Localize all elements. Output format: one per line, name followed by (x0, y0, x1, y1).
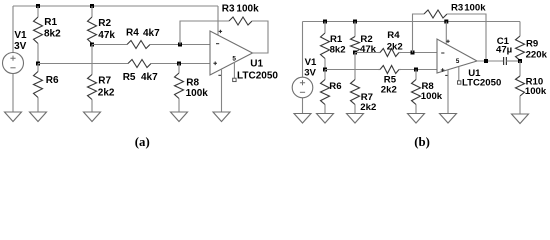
node junction R1 top on rail (b) (323, 20, 327, 24)
wire V+ top rail (b) (303, 21, 521, 23)
resistor R6 (a) (34, 64, 43, 113)
svg-text:(b): (b) (414, 135, 430, 149)
wire V+ supply pin drop to op-amp U1 (b) (445, 22, 447, 45)
resistor R2 47k (a) (88, 6, 97, 45)
svg-text:4k7: 4k7 (141, 72, 158, 83)
node junction R2 top on rail (a) (90, 4, 94, 8)
svg-text:V1: V1 (305, 57, 317, 68)
wire R2 bottom node to R4 (b) (355, 52, 378, 54)
node junction R8 top non-inverting input (a) (177, 62, 181, 66)
ground below R6 (a) (30, 112, 47, 122)
node junction R1 bottom / R6 top (a) (36, 62, 40, 66)
ground below V1 (b) (294, 114, 311, 124)
svg-text:U1: U1 (250, 58, 263, 69)
resistor R4 4k7 (a) (127, 41, 150, 49)
svg-text:LTC2050: LTC2050 (462, 78, 501, 89)
wire V+ supply pin drop to op-amp U1 (a) (217, 6, 219, 36)
svg-text:220k: 220k (526, 50, 548, 61)
ground below R7 (a) (84, 112, 101, 122)
op-amp U1 LTC2050 triangle (b) (437, 39, 477, 73)
node junction R2 top on rail (b) (353, 20, 357, 24)
resistor R4 2k2 (b) (378, 49, 401, 57)
wire feedback tap up to R3 (a) (180, 21, 229, 45)
resistor R3 100k feedback (b) (424, 10, 447, 18)
ground below R6 (b) (317, 114, 334, 124)
wire V1 positive terminal to top rail (b) (302, 22, 304, 78)
wire op-amp output to C1 (b) (477, 60, 504, 62)
op-amp U1 LTC2050 triangle (a) (210, 31, 253, 75)
wire R4 to inverting input of U1 (b) (401, 52, 437, 54)
wire V1 positive terminal to top rail (a) (12, 6, 14, 53)
svg-text:100k: 100k (186, 88, 209, 99)
pin 5 stub of U1 (b) (458, 67, 460, 81)
svg-text:R6: R6 (329, 81, 341, 92)
svg-text:5: 5 (232, 55, 236, 62)
svg-text:100k: 100k (525, 86, 547, 97)
wire op-amp V- pin to ground (b) (447, 70, 449, 114)
resistor R2 47k (b) (351, 22, 360, 53)
node junction C1 / R9 / R10 (b) (518, 59, 522, 63)
voltage source V1 3V (a) (3, 53, 24, 74)
ground below R8 (a) (171, 112, 188, 122)
svg-text:R6: R6 (46, 75, 59, 86)
wire V1 negative terminal to ground (a) (12, 74, 14, 113)
node junction R2 bottom / R4 / R7 (b) (353, 51, 357, 55)
wire V+ top rail (a) from V1 to op-amp supply (13, 5, 218, 7)
svg-text:2k2: 2k2 (360, 102, 376, 113)
resistor R3 100k feedback (a) (229, 17, 252, 25)
resistor R8 100k (a) (175, 64, 184, 113)
svg-text:2k2: 2k2 (98, 87, 115, 98)
svg-text:8k2: 8k2 (44, 28, 61, 39)
svg-text:47k: 47k (360, 44, 377, 55)
op-amp V- supply marker (a) (218, 74, 221, 76)
resistor R6 (b) (321, 70, 330, 114)
op-amp non-inverting input marker (b) (441, 68, 445, 72)
wire feedback tap up to R3 (b) (413, 14, 425, 53)
wire R1 bottom node to R5 (a) (38, 63, 128, 65)
op-amp non-inverting input marker (a) (213, 62, 217, 66)
ground below R7 (b) (347, 114, 364, 124)
svg-text:LTC2050: LTC2050 (237, 71, 278, 82)
svg-text:R1: R1 (44, 17, 57, 28)
pin 5 open terminal square (b) (458, 81, 461, 84)
svg-text:100k: 100k (236, 4, 259, 15)
svg-text:100k: 100k (464, 3, 486, 14)
svg-text:2k2: 2k2 (381, 85, 397, 96)
ground below op-amp U1 (b) (440, 114, 457, 124)
resistor R5 4k7 (a) (128, 60, 151, 68)
resistor R9 220k (b) (516, 36, 525, 61)
op-amp inverting input marker (b) (441, 52, 444, 54)
resistor R10 100k (b) (516, 61, 525, 114)
voltage source V1 3V (b) (292, 77, 313, 98)
svg-text:R7: R7 (98, 75, 111, 86)
ground below V1 (a) (5, 112, 22, 122)
svg-text:47µ: 47µ (496, 45, 512, 56)
op-amp V+ supply marker (a) (219, 30, 222, 33)
op-amp V- supply marker (b) (445, 74, 448, 76)
svg-text:4k7: 4k7 (143, 28, 160, 39)
resistor R7 2k2 (b) (351, 53, 360, 114)
wire R3 right to output node (b) (447, 14, 486, 61)
wire R5 to non-inverting input of U1 (b) (401, 69, 437, 71)
wire R5 to non-inverting input of U1 (a) (151, 63, 210, 65)
wire R2 bottom node to R4 (a) (92, 44, 127, 46)
svg-text:R2: R2 (98, 18, 111, 29)
resistor R5 2k2 (b) (378, 66, 401, 74)
wire R4 to inverting input of U1 (a) (150, 44, 210, 46)
svg-text:3V: 3V (304, 67, 316, 78)
ground below R10 (b) (512, 114, 529, 124)
node junction R2 bottom / R4 / R7 (a) (90, 43, 94, 47)
svg-text:5: 5 (456, 58, 460, 65)
node junction R8 top non-inverting input (b) (414, 68, 418, 72)
svg-text:R4: R4 (126, 28, 139, 39)
svg-text:R4: R4 (387, 30, 400, 41)
node junction V+ supply tap on rail (b) (444, 20, 448, 24)
svg-text:R5: R5 (123, 72, 136, 83)
node junction R1 bottom / R6 top (b) (323, 68, 327, 72)
node junction feedback tap inverting input (b) (411, 51, 415, 55)
wire top rail corner down to R9 (b) (519, 22, 521, 37)
svg-text:R8: R8 (186, 77, 199, 88)
resistor R1 8k2 (a) (34, 6, 43, 64)
wire R3 right to op-amp output (a) (252, 21, 268, 53)
svg-text:2k2: 2k2 (387, 41, 403, 52)
node junction output feedback tap (b) (484, 59, 488, 63)
resistor R1 8k2 (b) (321, 22, 330, 70)
svg-text:47k: 47k (98, 30, 115, 41)
pin 5 open terminal square (a) (233, 78, 236, 81)
pin 5 stub of U1 (a) (233, 62, 235, 78)
wire op-amp V- pin to ground (a) (221, 69, 223, 112)
wire C1 to R9/R10 node (b) (506, 60, 520, 62)
svg-text:R3: R3 (451, 3, 463, 14)
node junction feedback tap inverting input (a) (178, 43, 182, 47)
svg-text:V1: V1 (14, 30, 27, 41)
svg-text:R3: R3 (222, 3, 235, 14)
capacitor C1 47u (b) (504, 57, 507, 65)
svg-text:R9: R9 (526, 39, 538, 50)
resistor R7 2k2 (a) (88, 45, 97, 113)
op-amp V+ supply marker (b) (446, 40, 449, 43)
wire V1 negative terminal to ground (b) (302, 98, 304, 114)
op-amp inverting input marker (a) (216, 43, 219, 45)
svg-text:(a): (a) (135, 135, 150, 149)
ground below R8 (b) (408, 114, 425, 124)
ground below op-amp U1 (a) (213, 112, 230, 122)
svg-text:100k: 100k (421, 91, 443, 102)
svg-text:R1: R1 (330, 34, 343, 45)
svg-text:8k2: 8k2 (330, 45, 346, 56)
resistor R8 100k (b) (412, 70, 421, 114)
node junction R1 top on rail (a) (36, 4, 40, 8)
svg-text:3V: 3V (14, 41, 27, 52)
wire R1 bottom node to R5 (b) (325, 69, 378, 71)
